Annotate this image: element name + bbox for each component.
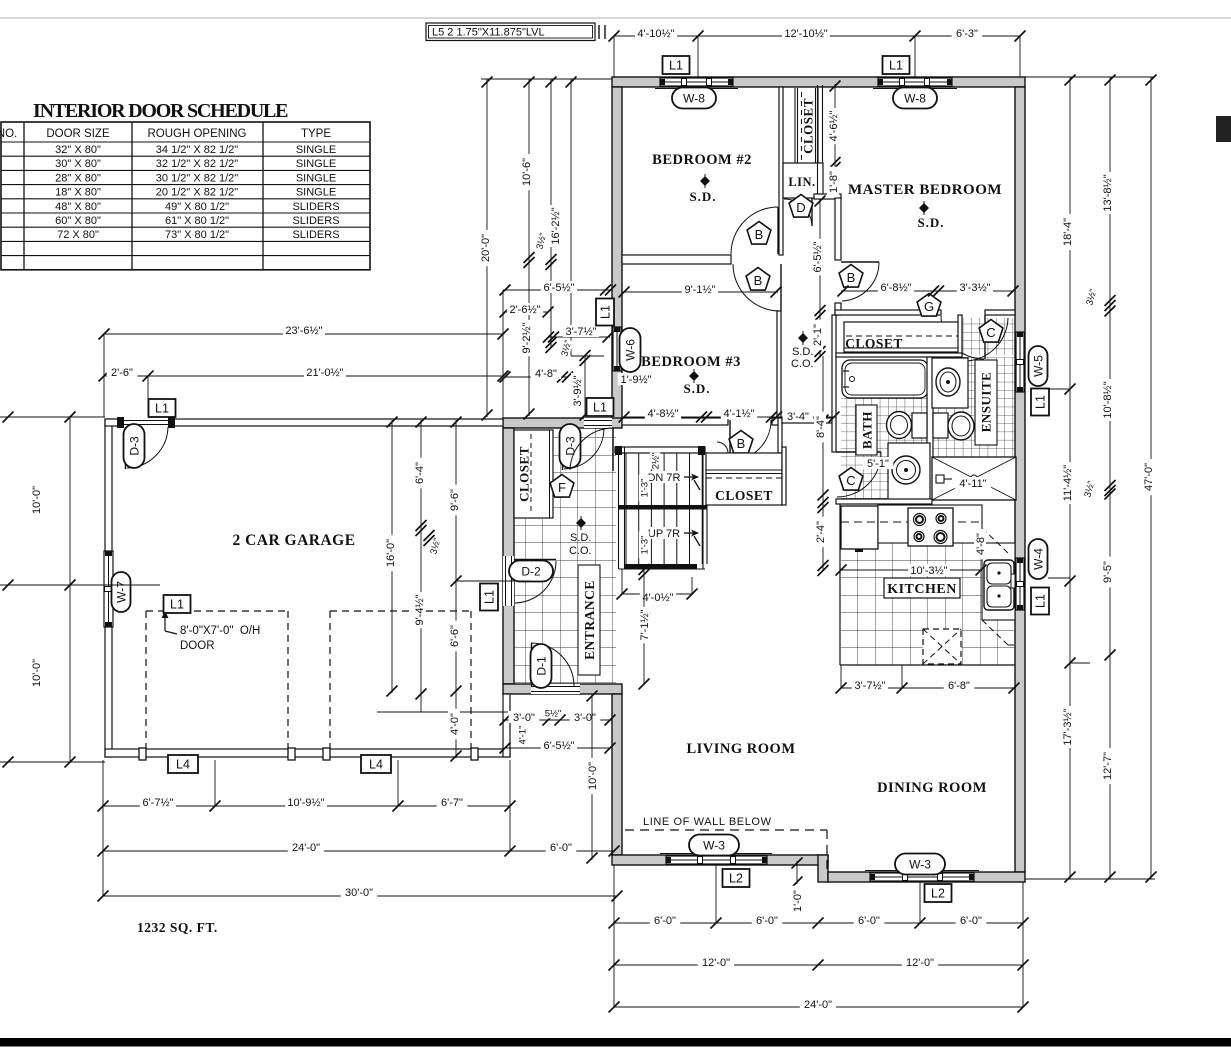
wall entrance left [503,428,514,684]
svg-text:9'-4½": 9'-4½" [414,594,426,625]
svg-text:W-8: W-8 [904,91,926,105]
dim 4-1 vertical small [517,722,529,749]
marker L1 garage west window [164,595,191,613]
svg-text:20 1/2" X 82 1/2": 20 1/2" X 82 1/2" [156,187,239,199]
svg-text:D-1: D-1 [534,656,548,676]
stair text UP 7R with arrow [646,527,682,539]
right vertical dim 47-0 [1150,77,1152,879]
svg-text:6'-5½": 6'-5½" [543,740,574,752]
svg-text:6'-3": 6'-3" [956,28,978,40]
svg-text:9'-2½": 9'-2½" [521,322,533,353]
kitchen tile floor [841,543,982,665]
marker L1 rotated bedroom3 west [596,299,614,326]
bedroom3 closet box [706,453,782,505]
svg-text:10'-0": 10'-0" [31,486,43,514]
door marker D-1 [531,644,552,688]
svg-text:SINGLE: SINGLE [296,158,336,170]
svg-text:1'-0": 1'-0" [792,890,804,912]
dim row garage 24-0 and 6-0 [103,850,614,852]
stair top wall [615,447,705,453]
marker L4 garage bottom right [361,755,391,773]
window marker W-3 right [895,854,945,875]
svg-text:C: C [986,325,995,340]
window W-5 right wall [1016,332,1024,392]
svg-text:CLOSET: CLOSET [715,488,773,503]
svg-text:20'-0": 20'-0" [480,234,492,262]
svg-text:D: D [796,200,805,215]
svg-text:10'-6": 10'-6" [521,158,533,186]
svg-text:C.O.: C.O. [791,358,814,370]
corridor jamb below LIN [814,194,841,199]
kitchen north wall [836,499,932,504]
svg-text:9'-1½": 9'-1½" [684,284,715,296]
dim 7-1half living [643,569,645,684]
svg-text:12'-0": 12'-0" [906,957,934,969]
vertical dim 10-6 and 9-2half [528,79,530,416]
door marker pentagon D [789,195,813,218]
bath vanity sink [888,443,930,500]
kitchen west boundary line [839,504,841,665]
door marker pentagon G [917,294,941,317]
bedroom3 south wall east segment [622,418,728,425]
door marker D-3 entrance [560,424,581,468]
smoke detector bedroom2 [700,176,710,186]
garage man door D-3 opening [124,418,168,427]
svg-text:34 1/2" X 82 1/2": 34 1/2" X 82 1/2" [156,144,239,156]
right vertical dim 18-4 11-4half 17-3half [1069,77,1071,879]
dim 10-0 living west [591,694,593,860]
svg-text:16'-2½": 16'-2½" [550,207,562,244]
svg-text:32" X 80": 32" X 80" [55,144,101,156]
dim 6-5half entrance below [505,747,610,749]
dim row kitchen bottom 3-7half 6-8 [841,687,1016,689]
svg-text:L5 2 1.75"X11.875"LVL: L5 2 1.75"X11.875"LVL [432,27,545,39]
stair small dims [650,453,662,470]
dim 4-6half master closet side [834,84,836,167]
door D-2 leaf and swing [514,559,556,561]
dim 1-9half bedroom3 window [618,373,654,385]
marker L1 front door [587,398,614,416]
dim 2-6half [505,311,548,313]
window L1 label top left [663,56,690,74]
svg-text:1'-3": 1'-3" [639,479,650,498]
svg-text:SINGLE: SINGLE [296,144,336,156]
svg-text:10'-0": 10'-0" [31,659,43,687]
hall smoke detector [798,333,808,343]
svg-text:18" X 80": 18" X 80" [55,187,101,199]
bedroom2 east wall [779,87,783,255]
bath tile floor [841,398,933,500]
garage east wall lower [503,694,510,757]
bedroom3 closet door small swing [717,442,728,453]
svg-text:ENSUITE: ENSUITE [979,372,994,433]
svg-text:10'-9½": 10'-9½" [287,797,324,809]
svg-text:48" X 80": 48" X 80" [55,201,101,213]
right vertical dim 13-8half 10-8half 9-5 12-7 [1109,77,1111,879]
entrance tile floor [553,428,616,684]
svg-text:W-8: W-8 [683,91,705,105]
svg-text:47'-0": 47'-0" [1143,463,1155,491]
bottom black bar [0,1038,1231,1047]
wall entrance top [503,418,622,428]
window W-8 right in top wall [873,88,957,90]
svg-text:CLOSET: CLOSET [517,446,532,502]
wall step bottom [818,855,828,882]
dim 1-0 step [796,861,798,884]
svg-text:W-4: W-4 [1031,548,1045,570]
svg-text:B: B [847,270,856,285]
svg-text:8'-4": 8'-4" [815,416,827,438]
window marker W-5 [1029,346,1048,386]
svg-text:7'-1½": 7'-1½" [639,609,651,640]
stair bottom landing bar [625,564,697,569]
svg-text:3'-9½": 3'-9½" [572,375,584,406]
garage dim 3half rotated [428,537,444,556]
svg-text:1'-3": 1'-3" [639,536,650,555]
wall bottom right [828,872,1025,882]
svg-text:49" X 80 1/2": 49" X 80 1/2" [165,201,229,213]
dim 9-1half bedroom3 [622,291,778,293]
svg-text:W-5: W-5 [1031,355,1045,377]
dim 6-8half master and 3-3half [841,290,1015,292]
svg-text:4'-8": 4'-8" [975,533,987,555]
garage overhead door note arrow [164,613,166,631]
stair mid landing bar [619,505,707,510]
svg-text:MASTER BEDROOM: MASTER BEDROOM [848,182,1002,198]
wall bottom left [612,855,828,865]
svg-text:17'-3½": 17'-3½" [1062,708,1074,745]
stair side walls [618,447,620,569]
svg-text:INTERIOR DOOR SCHEDULE: INTERIOR DOOR SCHEDULE [33,100,289,122]
svg-text:72 X 80": 72 X 80" [57,229,99,241]
svg-text:LIVING ROOM: LIVING ROOM [686,741,795,757]
svg-text:3'-0": 3'-0" [574,712,596,724]
page top faint line [0,17,1231,19]
dim row bottom 24-0 [614,1006,1023,1008]
master closet east wall [958,315,962,355]
left page edge dim lines [0,416,105,418]
svg-text:C.O.: C.O. [569,545,592,557]
bedroom3 door B leaf and swing [780,264,782,311]
svg-text:D-3: D-3 [127,436,141,456]
svg-text:30" X 80": 30" X 80" [55,158,101,170]
dim 3half below stair [639,607,655,626]
svg-text:2'-6": 2'-6" [111,367,133,379]
closet east wall [782,447,786,505]
svg-text:L1: L1 [889,59,903,73]
svg-text:CLOSET: CLOSET [845,336,903,351]
svg-text:L4: L4 [369,758,383,772]
bathtub [842,360,928,398]
svg-text:B: B [737,436,746,451]
svg-text:DN 7R: DN 7R [647,472,680,484]
interior door schedule table [1,122,370,270]
svg-text:SLIDERS: SLIDERS [292,215,339,227]
svg-text:18'-4": 18'-4" [1062,218,1074,246]
bedroom3 east wall [777,311,781,420]
dim row bottom 12-0 x2 [614,964,1023,966]
LVL box side mark [598,25,600,39]
svg-text:6'-6": 6'-6" [449,625,461,647]
dim 23-6half [104,333,503,335]
closet label bedroom2 closet [801,98,816,154]
svg-text:6'-7½": 6'-7½" [142,797,173,809]
svg-text:UP 7R: UP 7R [648,528,680,540]
window L1 label top right [883,56,910,74]
window marker W-3 left [689,835,739,856]
svg-text:W-3: W-3 [703,838,725,852]
svg-text:16'-0": 16'-0" [385,539,397,567]
svg-text:73" X 80 1/2": 73" X 80 1/2" [165,229,229,241]
dim 4-8 entrance [505,376,567,378]
garage bottom wall [105,749,510,757]
svg-text:SINGLE: SINGLE [296,172,336,184]
garage overhead door openings in bottom wall [146,750,288,756]
top dim connectors [613,36,615,77]
svg-text:L1: L1 [1034,395,1048,409]
dim 3-4 hall [774,416,836,418]
garage overhead door 1 dashed [146,610,288,612]
ensuite vanity sink [932,358,968,408]
svg-text:4'-0": 4'-0" [449,713,461,735]
dim 5-1 bath [863,457,894,469]
svg-text:10'-0": 10'-0" [587,762,599,790]
svg-text:LIN.: LIN. [788,175,815,189]
svg-text:9'-5": 9'-5" [1102,561,1114,583]
svg-text:6'-8½": 6'-8½" [880,282,911,294]
door marker pentagon B bedroom2 [747,222,771,245]
svg-text:4'-8½": 4'-8½" [647,408,678,420]
svg-text:6'-0": 6'-0" [654,915,676,927]
entrance closet [514,430,553,518]
kitchen island dashed [923,629,961,664]
door marker pentagon C ensuite [979,320,1003,343]
dim 6-5half corridor vertical [819,199,821,313]
svg-text:G: G [924,299,934,314]
svg-text:10'-3½": 10'-3½" [910,565,947,577]
svg-text:S.D.: S.D. [792,346,813,358]
entrance smoke detector [576,518,586,528]
svg-text:6'-0": 6'-0" [960,915,982,927]
window W-3 left bottom wall [660,853,772,855]
svg-text:6'-4": 6'-4" [414,462,426,484]
svg-text:2 CAR GARAGE: 2 CAR GARAGE [232,532,355,549]
door marker D-2 [509,561,553,582]
svg-text:4'-10½": 4'-10½" [637,28,674,40]
door marker pentagon B bedroom3 south [729,431,753,454]
dim row 30-0 [103,895,617,897]
dim 10-3half kitchen [841,569,981,571]
svg-text:L1: L1 [593,401,607,415]
garage top wall [105,419,503,426]
svg-text:BATH: BATH [860,411,875,449]
window marker W-4 [1029,539,1048,579]
svg-text:32 1/2" X 82 1/2": 32 1/2" X 82 1/2" [156,158,239,170]
top dim row [614,35,1020,37]
svg-text:4'-1": 4'-1" [517,726,528,745]
svg-text:2½": 2½" [650,453,661,470]
dim 1-8 vertical [827,167,840,198]
wall right exterior [1015,87,1025,872]
svg-text:2'-1": 2'-1" [812,324,824,346]
dim 21-0half and 2-6 [104,375,503,377]
stair treads UP [625,510,627,565]
svg-text:W-7: W-7 [114,581,128,603]
svg-text:NO.: NO. [0,128,17,140]
ensuite toilet [933,413,948,438]
stair treads DN [625,453,627,505]
garage interior vertical dims 6-4 9-4half [420,420,422,712]
garage man door D-3 leaf and swing [125,427,127,469]
svg-text:W-6: W-6 [623,339,637,361]
dim 3-7half [549,336,610,338]
ensuite door C leaf and swing [963,318,1008,361]
svg-text:6'-0": 6'-0" [858,915,880,927]
wall living west [612,694,622,855]
linen closet LIN [783,163,823,198]
svg-text:21'-0½": 21'-0½" [306,367,343,379]
svg-text:24'-0": 24'-0" [292,842,320,854]
svg-text:L1: L1 [170,598,184,612]
door D leaf and swing [811,198,813,226]
svg-text:2'-4": 2'-4" [815,521,827,543]
dim 2-4 hall vertical [822,497,824,570]
garage west wall [105,419,112,757]
svg-text:D-2: D-2 [521,564,541,578]
kitchen sink counter [982,543,1015,620]
svg-text:L1: L1 [669,59,683,73]
svg-text:1232 SQ. FT.: 1232 SQ. FT. [137,920,218,935]
svg-text:23'-6½": 23'-6½" [285,325,322,337]
bath door C leaf and swing [836,451,881,453]
svg-text:DINING ROOM: DINING ROOM [877,780,987,796]
window marker L2 right [925,884,952,902]
door D-1 opening in south wall [531,684,580,694]
svg-text:1'-8": 1'-8" [828,171,840,193]
svg-text:11'-4½": 11'-4½" [1062,465,1074,501]
svg-text:S.D.: S.D. [689,189,716,204]
right side bottom connector [1025,878,1155,880]
hall bath west wall [832,315,836,452]
window marker L1 below W-4 [1031,588,1049,615]
svg-text:SINGLE: SINGLE [296,187,336,199]
svg-text:5'-1": 5'-1" [867,458,889,470]
svg-text:9'-6": 9'-6" [449,489,461,511]
master closet box [844,322,960,352]
room label KITCHEN boxed [884,578,960,598]
top right corner mark [1216,116,1231,142]
svg-text:4'-6½": 4'-6½" [828,110,840,141]
kitchen stove [908,508,953,546]
kitchen dashed upper cabinets [982,528,1008,553]
dim 4-11 shower [955,477,991,489]
svg-text:DOOR: DOOR [180,640,215,652]
vertical dim 3half rotated [534,232,550,251]
svg-text:4'-8": 4'-8" [535,368,557,380]
door marker pentagon B master [839,265,863,288]
garage interior vertical dims 9-6 6-6 4-0 [455,420,457,758]
window marker L2 left [723,869,750,887]
window W-4 right wall [1016,558,1024,610]
kitchen double sink [984,560,1014,610]
svg-text:61" X 80 1/2": 61" X 80 1/2" [165,215,229,227]
kitchen south boundary line [840,664,1015,666]
svg-text:30'-0": 30'-0" [345,887,373,899]
master door B leaf and swing [841,261,879,263]
vertical dim 16-2half [550,79,552,347]
svg-text:C: C [846,473,855,488]
smoke detector bedroom3 [689,371,699,381]
LVL beam note box [426,23,595,41]
svg-text:ROUGH OPENING: ROUGH OPENING [147,128,246,140]
svg-text:6'-7": 6'-7" [441,797,463,809]
svg-text:4'-0½": 4'-0½" [642,592,673,604]
svg-text:30 1/2" X 82 1/2": 30 1/2" X 82 1/2" [156,172,239,184]
marker L4 garage bottom left [168,755,198,773]
svg-text:6'-5½": 6'-5½" [812,241,824,272]
svg-text:28" X 80": 28" X 80" [55,172,101,184]
svg-text:10'-8½": 10'-8½" [1102,381,1114,418]
svg-text:S.D.: S.D. [683,381,710,396]
entrance label ENTRANCE [578,565,600,675]
svg-text:12'-10½": 12'-10½" [784,28,827,40]
closet label entrance closet [517,446,532,502]
svg-text:4'-11": 4'-11" [959,478,986,490]
dim 3-9half vertical [584,356,586,417]
door marker pentagon B bedroom3 upper [746,268,770,291]
svg-text:TYPE: TYPE [301,128,331,140]
svg-text:L2: L2 [931,887,945,901]
svg-text:W-3: W-3 [909,857,931,871]
right dim 3half rotated marks [1084,288,1100,307]
svg-text:ENTRANCE: ENTRANCE [582,580,597,660]
svg-text:8'-0"X7'-0" O/H: 8'-0"X7'-0" O/H [180,625,260,637]
svg-text:L1: L1 [155,402,169,416]
dim 2-1 corridor vertical [819,313,821,356]
svg-text:L1: L1 [483,590,497,604]
door marker L1 rotated west [480,584,498,611]
bottom dim stubs [613,865,615,1007]
bath label BATH [856,405,877,455]
hall south wall segment [782,418,835,423]
window W-3 right bottom wall [865,870,979,872]
bath ensuite divider wall [927,357,933,500]
dim row bottom 6-0 x4 [614,922,1023,924]
entrance closet door D-3 leaf and swing [562,428,564,470]
svg-text:12'-0": 12'-0" [702,957,730,969]
svg-text:13'-8½": 13'-8½" [1102,174,1114,211]
svg-text:24'-0": 24'-0" [804,999,832,1011]
kitchen fridge [841,506,878,549]
svg-text:F: F [558,480,566,495]
svg-text:CLOSET: CLOSET [801,98,816,154]
ensuite corner shower [932,457,1016,500]
svg-text:B: B [755,227,764,242]
dim 6-5half entrance width [503,289,612,291]
ensuite tile floor [962,318,1015,355]
door G leaf and swing [984,315,986,359]
svg-text:60" X 80": 60" X 80" [55,215,101,227]
bedroom2 door B leaf and swing [777,207,779,254]
svg-text:S.D.: S.D. [570,532,591,544]
kitchen counter [878,505,982,543]
svg-text:3'-7½": 3'-7½" [854,680,885,692]
lin right wall [817,85,819,198]
door D-1 leaf and swing [531,643,533,686]
stair text DN 7R with arrow [646,471,682,483]
bedroom3 door B opening leaf and swing [729,420,731,462]
window W-8 left in top wall [655,88,738,90]
